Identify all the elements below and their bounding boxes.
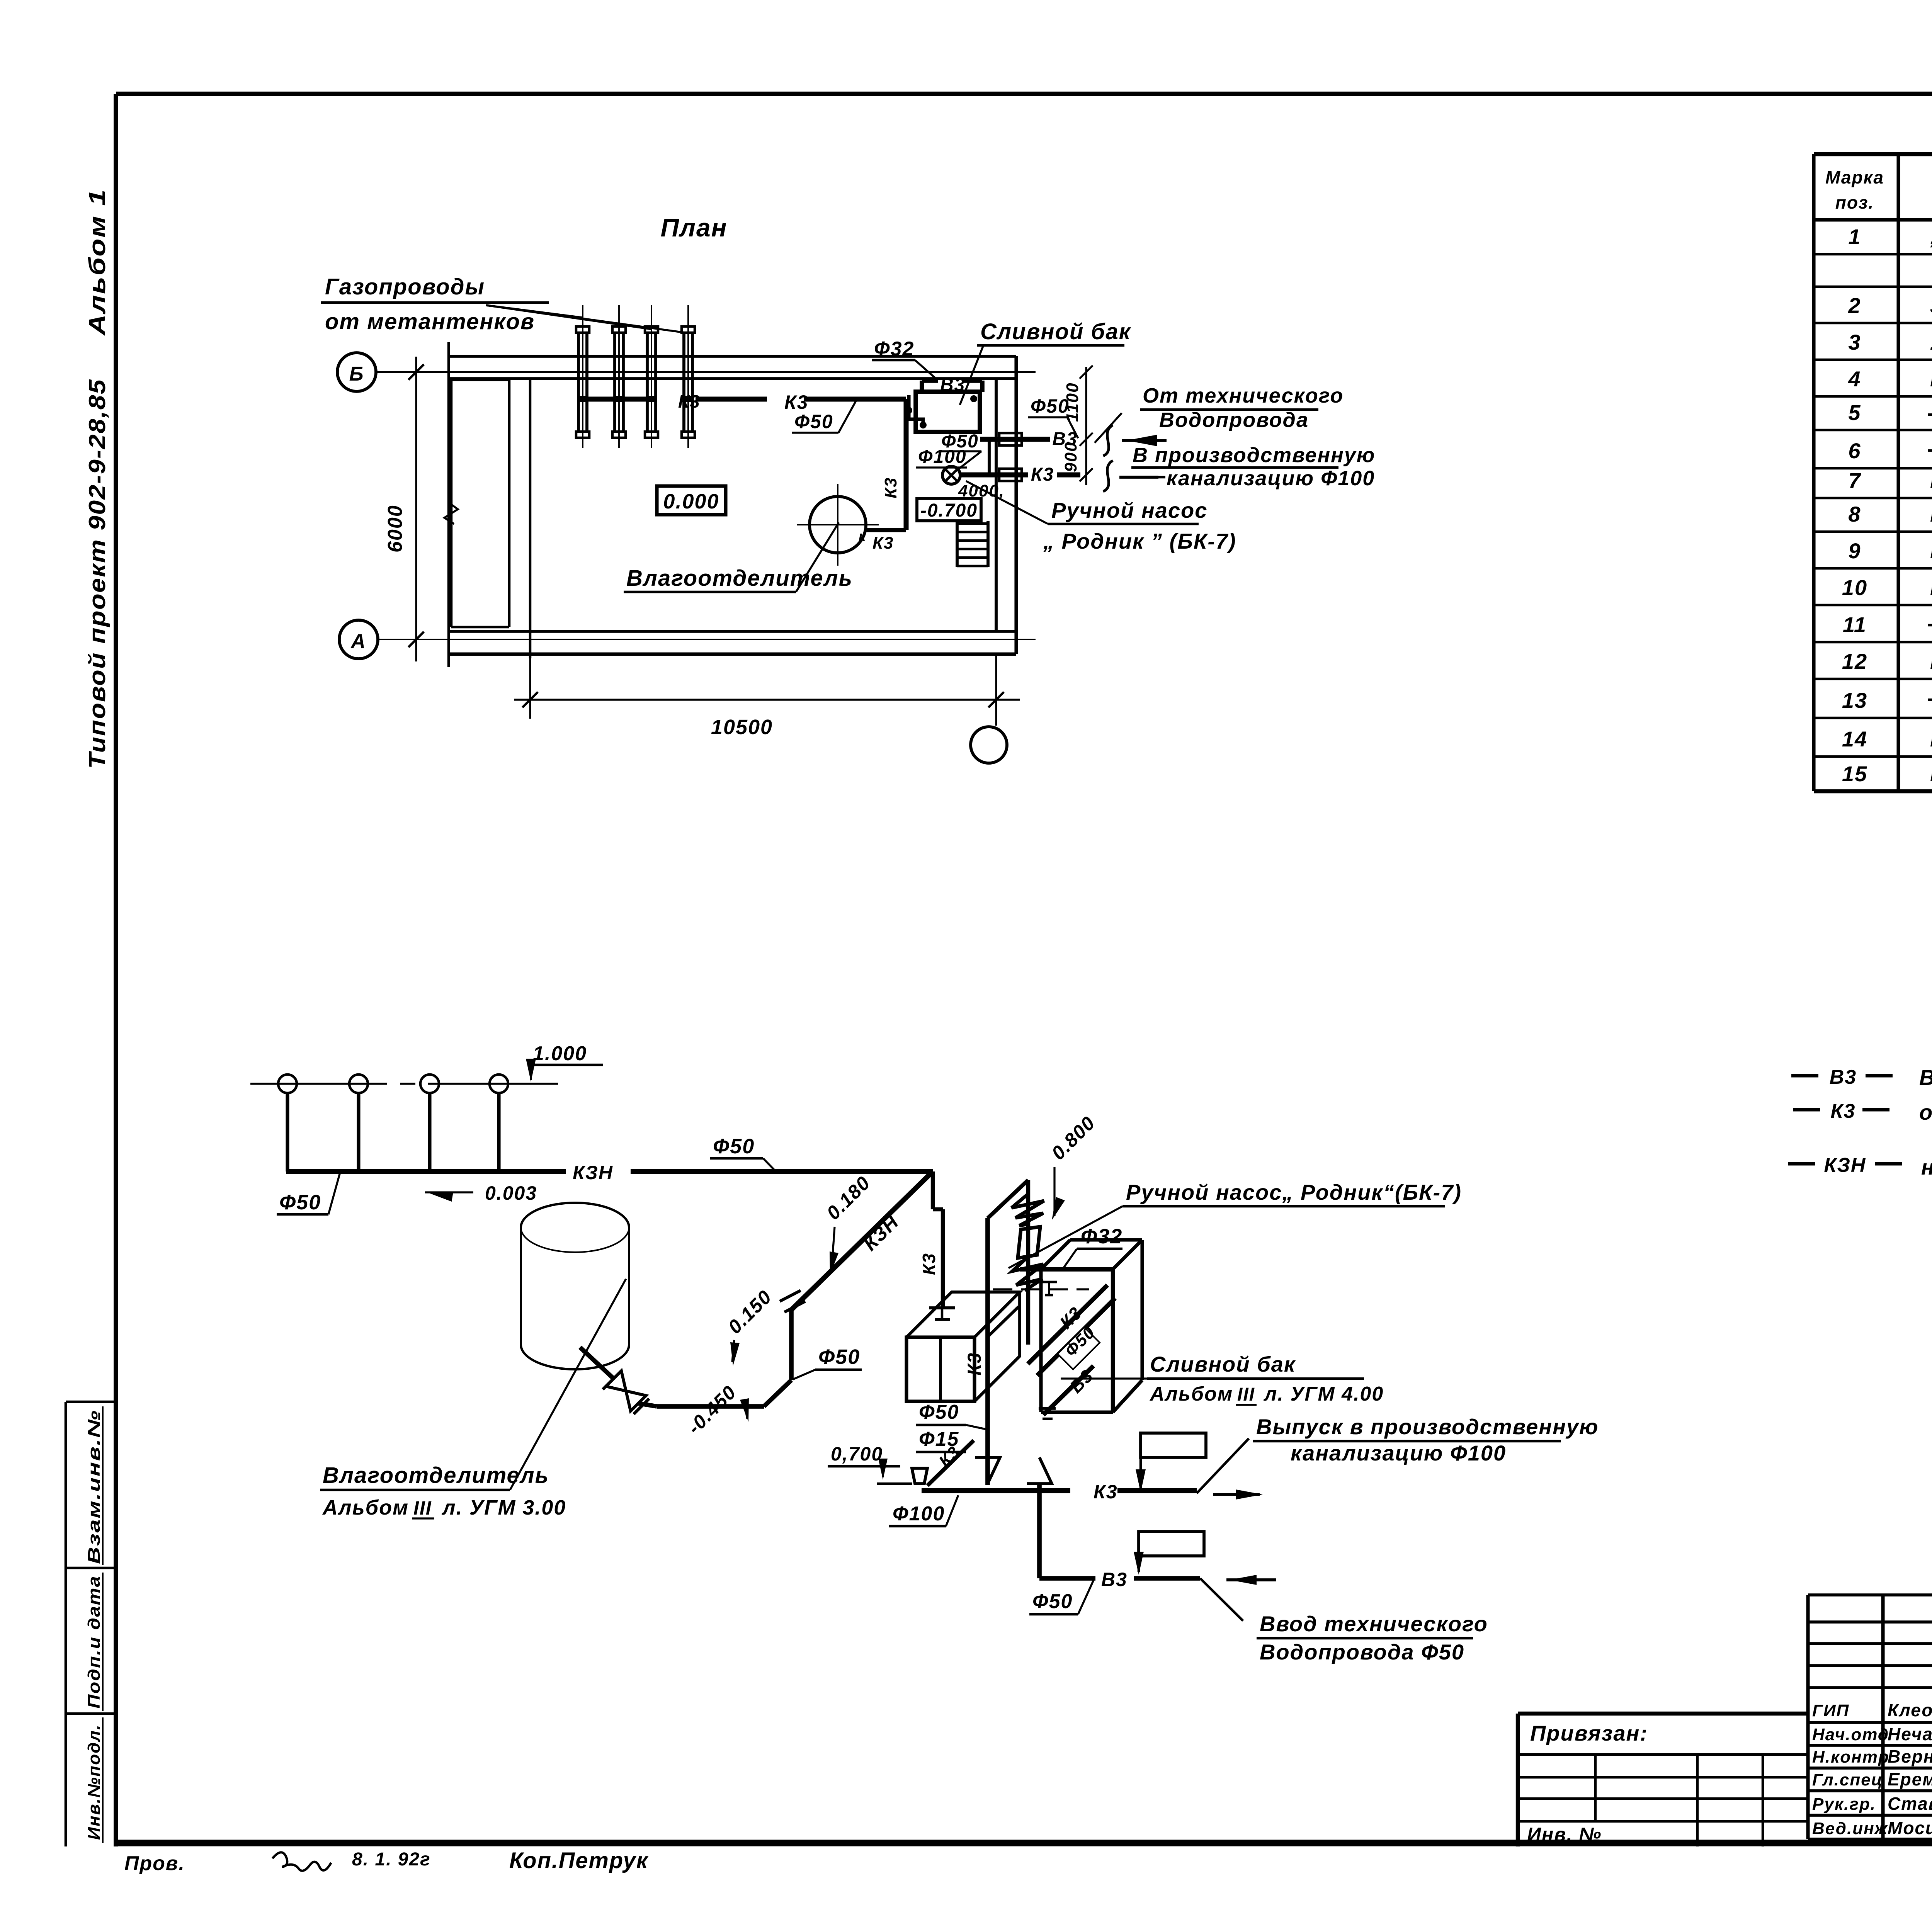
right wall outer [1014, 356, 1018, 654]
partition line [529, 380, 532, 658]
svg-text:15: 15 [1842, 762, 1867, 786]
svg-text:Сливной бак: Сливной бак [980, 319, 1131, 344]
svg-text:Подп.и дата: Подп.и дата [85, 1575, 104, 1709]
svg-text:Ф100: Ф100 [893, 1503, 945, 1525]
valve bowtie right [626, 1391, 646, 1411]
axono: slope 0.003 [425, 1191, 473, 1193]
svg-text:К3: К3 [919, 1253, 939, 1275]
plan: hand pump symbol [942, 466, 960, 484]
svg-text:0.003: 0.003 [485, 1182, 537, 1204]
svg-text:ГОСТ 17378-83: ГОСТ 17378-83 [1930, 540, 1932, 563]
ВЗ tee bar [1039, 1407, 1056, 1410]
svg-text:В3: В3 [1101, 1569, 1128, 1590]
svg-text:К3: К3 [1094, 1481, 1118, 1503]
svg-text:4: 4 [1848, 367, 1861, 391]
svg-text:А: А [350, 630, 366, 653]
axono: foundation box right face [975, 1292, 1020, 1401]
svg-text:КЗН: КЗН [1824, 1154, 1866, 1177]
pump diamond [1018, 1227, 1040, 1258]
axono: tank box top [1041, 1240, 1070, 1269]
sheet frame [116, 92, 1932, 96]
foundation front middle line [939, 1337, 942, 1401]
axono: long КЗН diagonal [791, 1171, 933, 1310]
plan: КЗ condensate line along wall [583, 397, 657, 402]
svg-text:Ф50: Ф50 [279, 1191, 321, 1214]
axono: Z jog up [764, 1380, 791, 1406]
right wall inner [995, 379, 998, 631]
plan: axis Б circle [337, 353, 376, 391]
plan: КЗ pipe out through wall [960, 473, 1028, 478]
svg-text:напорный участок трубопровода.: напорный участок трубопровода. [1921, 1155, 1932, 1179]
svg-text:Марка: Марка [1825, 167, 1884, 187]
svg-text:К3: К3 [872, 534, 894, 553]
svg-text:Б: Б [349, 363, 364, 385]
svg-text:3: 3 [1848, 330, 1861, 354]
svg-text:Ф50: Ф50 [1032, 1590, 1073, 1613]
svg-text:ГОСТ 3262-75: ГОСТ 3262-75 [1930, 368, 1932, 391]
svg-text:Ручной насос: Ручной насос [1051, 498, 1207, 522]
svg-text:III: III [1237, 1384, 1255, 1405]
svg-text:ГОСТ 1811-81: ГОСТ 1811-81 [1930, 763, 1932, 786]
svg-text:Водопровода: Водопровода [1159, 408, 1309, 432]
svg-text:ГОСТ 17375-83: ГОСТ 17375-83 [1930, 503, 1932, 526]
plan: 4 gas riser symbols [582, 305, 583, 448]
specification table grid [1814, 152, 1932, 156]
svg-text:Клеопова: Клеопова [1888, 1700, 1932, 1720]
привязан block [1518, 1712, 1808, 1715]
plan: -0.700 elevation box [917, 498, 981, 521]
svg-text:В3: В3 [1830, 1066, 1857, 1088]
svg-text:5: 5 [1848, 400, 1861, 425]
valve end bar [603, 1374, 618, 1389]
axono: base КЗН line [286, 1169, 566, 1174]
svg-text:Нечаев: Нечаев [1888, 1724, 1932, 1744]
svg-text:8: 8 [1848, 502, 1861, 526]
svg-text:„Родник” (БК-7): „Родник” (БК-7) [1930, 226, 1932, 249]
svg-text:Вед.инж: Вед.инж [1812, 1819, 1888, 1838]
svg-text:Ф100: Ф100 [918, 447, 967, 467]
svg-text:КЗН: КЗН [573, 1162, 613, 1183]
φ50 horizontal [657, 1404, 715, 1409]
plan: tank side fittings [909, 395, 923, 425]
leader to ввод text [1200, 1578, 1243, 1621]
svg-text:„ Родник ” (БК-7): „ Родник ” (БК-7) [1043, 529, 1236, 553]
drain tee top [929, 1306, 955, 1309]
svg-text:К3: К3 [784, 391, 809, 413]
axono: main КЗ riser [985, 1218, 990, 1485]
svg-text:Инв. №: Инв. № [1527, 1824, 1602, 1845]
svg-text:Нач.отд: Нач.отд [1812, 1725, 1889, 1744]
plan: 0.000 elevation box [657, 486, 726, 515]
Ф32 ВЗ horizontal [1020, 1267, 1113, 1272]
axono: coupling ticks [780, 1290, 801, 1301]
svg-text:1: 1 [1848, 224, 1861, 249]
axono: влагоотделитель cylinder [521, 1203, 629, 1228]
plan: dim 10500 [529, 658, 531, 719]
valve end bar 2 [634, 1399, 649, 1414]
leader to cylinder [510, 1279, 626, 1490]
legend line КЗН [1788, 1162, 1815, 1165]
svg-text:12: 12 [1842, 649, 1867, 673]
svg-text:л. УГМ 4.00: л. УГМ 4.00 [1263, 1383, 1384, 1405]
svg-text:канализацию Ф100: канализацию Ф100 [1291, 1441, 1506, 1465]
svg-text:8. 1. 92г: 8. 1. 92г [352, 1849, 431, 1870]
plan: влагоотделитель circle [810, 496, 866, 553]
svg-text:Ф32: Ф32 [1081, 1225, 1122, 1248]
svg-text:1.000: 1.000 [533, 1042, 587, 1065]
axono: КЗ bottom horizontal [922, 1488, 1070, 1493]
svg-text:ГОСТ 12820-80: ГОСТ 12820-80 [1930, 576, 1932, 600]
svg-text:14: 14 [1842, 727, 1867, 751]
svg-text:Коп.Петрук: Коп.Петрук [509, 1848, 649, 1873]
svg-text:отвод конденсата: отвод конденсата [1919, 1100, 1932, 1124]
plan: dim 6000 [415, 357, 417, 661]
svg-text:-0.700: -0.700 [920, 500, 978, 521]
top wall outer [449, 355, 1016, 358]
svg-text:Ф50: Ф50 [1031, 395, 1070, 417]
svg-text:154 8 бр: 154 8 бр [1930, 331, 1932, 354]
svg-text:К3: К3 [964, 1352, 985, 1375]
svg-text:13: 13 [1842, 688, 1867, 712]
svg-text:Верник: Верник [1888, 1746, 1932, 1766]
svg-text:900: 900 [1061, 442, 1080, 472]
axono: pipe from cylinder with valve [580, 1347, 614, 1379]
bottom wall inner [449, 630, 1016, 633]
staff table [1806, 1595, 1810, 1839]
axono: foundation box front face [906, 1337, 975, 1401]
svg-text:Влагоотделитель: Влагоотделитель [626, 566, 853, 591]
S break ВЗ [1103, 425, 1113, 456]
svg-text:канализацию Ф100: канализацию Ф100 [1167, 467, 1375, 490]
svg-text:ГИП: ГИП [1812, 1701, 1849, 1720]
plan: dim 900/1100 line [1085, 367, 1087, 485]
signature squiggle [272, 1852, 331, 1871]
svg-text:Еремеево: Еремеево [1888, 1769, 1932, 1789]
svg-text:Водопровод: Водопровод [1919, 1065, 1932, 1090]
plan: ВЗ pipe out through wall [980, 437, 1050, 442]
axono: 4 riser circles [278, 1075, 297, 1093]
svg-text:7: 7 [1848, 468, 1861, 493]
svg-text:Альбом: Альбом [1149, 1383, 1233, 1405]
bottom wall outer [449, 652, 1016, 656]
svg-text:Взам.инв.№: Взам.инв.№ [85, 1409, 104, 1564]
svg-text:ГОСТ 5915-70: ГОСТ 5915-70 [1930, 728, 1932, 751]
svg-text:Ввод технического: Ввод технического [1260, 1612, 1488, 1636]
axono: tank dashed water level [993, 1288, 1089, 1290]
svg-text:Типовой проект 902-9-28,85: Типовой проект 902-9-28,85 [84, 379, 110, 769]
plan: КЗ to канализация [1119, 476, 1158, 479]
svg-text:к: к [859, 528, 866, 544]
axono: trap Ф100 [912, 1468, 927, 1484]
svg-text:от метантенков: от метантенков [325, 309, 535, 334]
axono: ВЗ diagonal out of tank [1043, 1366, 1094, 1415]
svg-text:Гл.спец: Гл.спец [1812, 1770, 1883, 1789]
axono: КЗ Ф50 diagonals in tank [1028, 1285, 1107, 1364]
tank back right vertical [1140, 1240, 1144, 1380]
left wall line [447, 342, 450, 667]
axono: КЗ diagonal from trap [927, 1440, 974, 1486]
svg-text:6000: 6000 [384, 505, 406, 553]
top diagonal [988, 1180, 1028, 1218]
svg-text:К3: К3 [1031, 464, 1054, 485]
svg-text:Ф15: Ф15 [919, 1428, 959, 1450]
svg-text:Рук.гр.: Рук.гр. [1812, 1795, 1876, 1814]
plan: wall sleeve КЗ [999, 469, 1022, 481]
svg-text:Мосичкино: Мосичкино [1888, 1818, 1932, 1838]
top wall inner [449, 377, 1016, 380]
plan: КЗ drop at сливной бак [904, 399, 909, 530]
plan: wall sleeve ВЗ [999, 433, 1022, 445]
legend line ВЗ [1791, 1074, 1818, 1077]
S break КЗ [1103, 461, 1113, 491]
svg-text:Ф50: Ф50 [818, 1345, 860, 1369]
tank bottom right diagonal [1113, 1380, 1142, 1412]
plan: axis А line [378, 639, 1036, 640]
svg-text:К3: К3 [1831, 1100, 1856, 1122]
svg-text:К3: К3 [881, 477, 900, 498]
svg-text:2: 2 [1848, 293, 1861, 318]
svg-text:Альбом 1: Альбом 1 [84, 189, 110, 337]
tank right front vertical [1111, 1269, 1115, 1412]
svg-text:л. УГМ 3.00: л. УГМ 3.00 [441, 1496, 566, 1519]
ВЗ up triangle [1027, 1457, 1052, 1484]
КЗ down triangle [975, 1457, 1000, 1484]
svg-text:6: 6 [1848, 439, 1861, 463]
svg-text:Ф50: Ф50 [919, 1401, 959, 1423]
break mark on wall [444, 502, 458, 524]
axono: КЗ drop from base corner [931, 1171, 935, 1209]
svg-text:В3: В3 [940, 375, 965, 395]
svg-text:Ручной насос„ Родник“(БК-7): Ручной насос„ Родник“(БК-7) [1126, 1180, 1462, 1204]
pump zigzag top [1012, 1194, 1044, 1226]
svg-text:В производственную: В производственную [1133, 444, 1375, 467]
svg-text:Пров.: Пров. [124, 1852, 185, 1875]
plane bottom diagonal [988, 1307, 1019, 1337]
plan: leaders to risers [486, 305, 583, 318]
svg-text:Альбом: Альбом [322, 1496, 409, 1519]
svg-text:Привязан:: Привязан: [1530, 1721, 1648, 1745]
svg-text:Инв.№подл.: Инв.№подл. [85, 1724, 104, 1840]
svg-text:Сливной бак: Сливной бак [1150, 1352, 1296, 1376]
legend line КЗ [1793, 1108, 1820, 1111]
svg-text:ГОСТ 7798-70: ГОСТ 7798-70 [1930, 650, 1932, 673]
svg-text:304 47 бр 2: 304 47 бр 2 [1930, 294, 1932, 318]
svg-text:План: План [660, 213, 727, 242]
svg-text:III: III [413, 1497, 432, 1519]
svg-text:Влагоотделитель: Влагоотделитель [323, 1463, 549, 1488]
svg-text:Ф50: Ф50 [794, 411, 833, 432]
axono: outlet symbol 1 (канализация) [1141, 1433, 1206, 1457]
plan: axis А circle [339, 620, 378, 659]
ВЗ bottom horizontal [1039, 1576, 1095, 1581]
plan: ladder [956, 521, 959, 567]
axono: foundation box top face [906, 1292, 1020, 1337]
left margin cells [65, 1402, 67, 1846]
plan: ВЗ arrow from водопровод [1122, 439, 1167, 442]
svg-text:Газопроводы: Газопроводы [325, 274, 485, 299]
svg-text:10: 10 [1842, 575, 1867, 600]
svg-text:Н.контр: Н.контр [1812, 1748, 1889, 1766]
svg-text:Выпуск в производственную: Выпуск в производственную [1256, 1415, 1599, 1439]
pump zigzag bottom [1012, 1256, 1043, 1290]
svg-text:10500: 10500 [711, 716, 773, 739]
valve bowtie left [606, 1371, 626, 1391]
plan: partition walls [451, 379, 509, 381]
riser to pump [988, 439, 991, 475]
svg-text:Водопровода Ф50: Водопровода Ф50 [1260, 1640, 1464, 1664]
svg-text:От технического: От технического [1143, 384, 1344, 407]
svg-text:11: 11 [1843, 612, 1867, 637]
svg-text:0,700: 0,700 [831, 1443, 883, 1465]
svg-text:Ф32: Ф32 [874, 338, 914, 360]
svg-text:9: 9 [1848, 539, 1861, 563]
svg-text:поз.: поз. [1835, 192, 1874, 213]
tank bottom edge [1041, 1410, 1113, 1414]
leader to выпуск text [1197, 1438, 1249, 1493]
axono: outlet symbol 2 (ввод) [1139, 1532, 1204, 1556]
plan: axis Б line [376, 371, 1036, 373]
tank left front vertical [1039, 1269, 1043, 1412]
tank rect [916, 392, 980, 432]
axis line through circles [250, 1083, 387, 1085]
svg-text:ГОСТ 22689.3-77: ГОСТ 22689.3-77 [1930, 469, 1932, 493]
svg-text:Ф50: Ф50 [713, 1135, 755, 1158]
plan: hanging circle below dim [971, 727, 1007, 763]
svg-text:Ставровская: Ставровская [1888, 1794, 1932, 1814]
drain tee bottom [935, 1318, 950, 1321]
axono: pump vertical with zigzag [1026, 1180, 1030, 1269]
svg-text:0.000: 0.000 [663, 490, 719, 513]
